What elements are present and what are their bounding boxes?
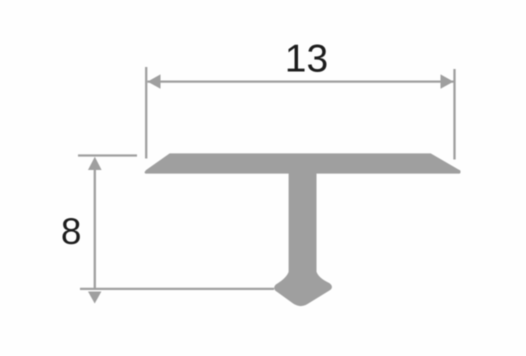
svg-text:13: 13 xyxy=(285,37,328,80)
svg-text:8: 8 xyxy=(61,211,82,252)
T-profile body (flange) xyxy=(146,155,460,173)
T-profile stem and foot xyxy=(275,172,331,305)
left arrow xyxy=(148,74,161,88)
vertical dimension line xyxy=(94,168,96,290)
dimension line xyxy=(148,80,454,82)
right extension line xyxy=(453,69,455,160)
bottom extension line xyxy=(80,288,274,290)
down arrow xyxy=(88,292,101,304)
up arrow xyxy=(88,157,102,170)
left extension line xyxy=(145,67,147,159)
top tick line xyxy=(78,154,137,156)
right arrow xyxy=(441,74,454,88)
